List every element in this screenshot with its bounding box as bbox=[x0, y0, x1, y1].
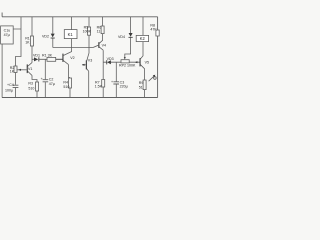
svg-text:K2: K2 bbox=[140, 36, 146, 41]
svg-text:47µ: 47µ bbox=[4, 33, 10, 37]
svg-text:V2: V2 bbox=[70, 56, 74, 60]
svg-text:220µ: 220µ bbox=[120, 85, 128, 89]
svg-text:R3: R3 bbox=[28, 82, 33, 86]
svg-text:100µ: 100µ bbox=[5, 88, 13, 92]
svg-text:C2: C2 bbox=[49, 77, 54, 81]
svg-text:RP2 100K: RP2 100K bbox=[119, 64, 136, 68]
svg-text:K1: K1 bbox=[68, 32, 74, 37]
svg-text:V1: V1 bbox=[28, 67, 32, 71]
svg-text:R1 3K: R1 3K bbox=[42, 53, 53, 57]
svg-text:V4: V4 bbox=[102, 44, 106, 48]
svg-text:VD2: VD2 bbox=[42, 34, 49, 38]
svg-text:51: 51 bbox=[139, 85, 143, 89]
svg-text:11: 11 bbox=[97, 30, 101, 34]
svg-text:VD1: VD1 bbox=[33, 53, 40, 57]
svg-text:510: 510 bbox=[63, 85, 69, 89]
svg-text:R9: R9 bbox=[139, 81, 144, 85]
svg-text:47K: 47K bbox=[150, 28, 157, 32]
svg-text:47µ: 47µ bbox=[49, 82, 55, 86]
svg-text:R4: R4 bbox=[63, 80, 68, 84]
svg-text:V5: V5 bbox=[145, 61, 149, 65]
svg-text:+: + bbox=[41, 77, 43, 81]
svg-text:VD3: VD3 bbox=[107, 57, 114, 61]
svg-text:+C4: +C4 bbox=[7, 83, 14, 87]
svg-text:510: 510 bbox=[28, 87, 34, 91]
svg-text:V3: V3 bbox=[88, 58, 92, 62]
svg-text:VD4: VD4 bbox=[118, 35, 125, 39]
svg-text:1K: 1K bbox=[10, 70, 15, 74]
svg-text:100K: 100K bbox=[83, 30, 92, 34]
svg-text:1K: 1K bbox=[25, 41, 30, 45]
svg-text:+: + bbox=[111, 80, 113, 84]
svg-text:1.5K: 1.5K bbox=[95, 85, 103, 89]
